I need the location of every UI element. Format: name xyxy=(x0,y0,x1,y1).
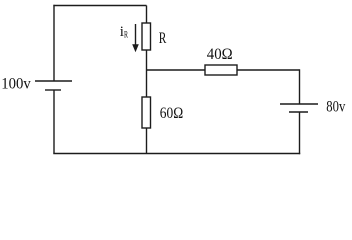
current arrow iR shaft xyxy=(135,24,137,46)
battery V1 100v short plate xyxy=(45,89,61,91)
svg-text:R: R xyxy=(124,29,128,39)
wire between R and 60ohm resistor xyxy=(146,50,148,97)
battery V1 100v long plate xyxy=(35,80,72,82)
resistor R body xyxy=(142,23,151,50)
wire resistor R top lead xyxy=(146,6,148,24)
wire right vertical upper xyxy=(299,69,301,104)
wire right vertical lower xyxy=(299,112,301,154)
svg-text:100v: 100v xyxy=(1,76,31,93)
wire left vertical upper xyxy=(53,5,55,81)
wire bottom horizontal xyxy=(53,153,300,155)
current arrow iR head xyxy=(132,44,139,52)
svg-text:40Ω: 40Ω xyxy=(207,46,233,63)
wire middle horizontal right segment xyxy=(237,69,300,71)
wire top horizontal xyxy=(53,5,146,7)
battery V2 80v long plate xyxy=(280,103,318,105)
wire middle horizontal left segment xyxy=(147,69,206,71)
svg-text:R: R xyxy=(159,30,167,47)
resistor R1 40ohm body xyxy=(205,65,237,75)
svg-text:60Ω: 60Ω xyxy=(160,105,183,122)
svg-text:80v: 80v xyxy=(326,99,345,116)
resistor R2 60ohm body xyxy=(142,97,151,128)
wire left vertical lower xyxy=(53,90,55,154)
battery V2 80v short plate xyxy=(289,111,308,113)
wire 60ohm bottom lead xyxy=(146,128,148,154)
